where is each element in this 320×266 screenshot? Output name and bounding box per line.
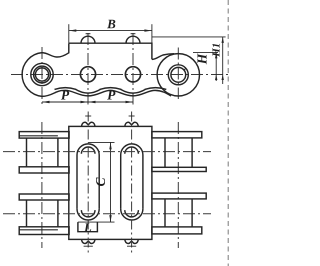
- dimension H1 top extension line: [152, 36, 226, 38]
- bottom inner plate cap arc at pin 2: [75, 89, 100, 93]
- center line tick above pin 3 arc: [131, 33, 136, 35]
- plan view: center line tick top left: [85, 115, 91, 117]
- plan view: right bushing inner end arc bottom: [125, 210, 139, 217]
- clip mark on right pin rings: [184, 68, 186, 70]
- dimension C top extension line: [88, 141, 114, 143]
- plan view: upper-right roller edges: [165, 138, 192, 167]
- node: pin axis 2 center line: [87, 33, 89, 105]
- plan view: right bushing bottom arc: [121, 209, 143, 220]
- bottom inner plate waist arc span 3: [145, 88, 167, 90]
- bushing arc on plate top at pin 3: [126, 36, 140, 43]
- plan view: lower-right outer plate bar: [152, 227, 202, 234]
- plan view: upper-left roller edges: [27, 138, 58, 167]
- plan view: lower-right inner plate pair: [152, 193, 206, 199]
- svg-text:C: C: [93, 177, 108, 187]
- plan view: upper-right outer plate bar: [152, 132, 202, 138]
- plan view: right bushing outer stadium: [121, 144, 143, 209]
- plan view: upper row center line: [3, 151, 211, 153]
- plan view: right pin axis center line: [177, 122, 179, 248]
- dimension B line: [69, 30, 152, 32]
- plan view: pin end ears top right: [125, 122, 139, 126]
- left roller circle: [31, 63, 53, 85]
- svg-text:H: H: [194, 53, 209, 65]
- dimension C bottom extension line: [78, 221, 115, 223]
- bushing arc on plate top at pin 2: [81, 36, 95, 43]
- wire: chain horizontal center line (side view): [11, 74, 229, 76]
- svg-text:L: L: [83, 220, 92, 234]
- dimension B right extension line: [151, 24, 153, 43]
- top contour left span: [42, 43, 69, 57]
- border: dashed page edge right: [227, 0, 229, 266]
- plan view: upper-right inner plate pair: [152, 167, 206, 171]
- center line tick above pin 2 arc: [86, 33, 91, 35]
- plan view: lower row center line: [3, 213, 211, 215]
- plan view: center line tick bottom left: [84, 245, 93, 247]
- plan view: left bushing inner end arc bottom: [81, 210, 95, 217]
- plan view: pin end ears bottom right: [125, 239, 139, 243]
- bottom outer plate wavy contour: [42, 90, 171, 96]
- dimension C line: [110, 142, 112, 222]
- dimension H line: [215, 52, 217, 81]
- dimension H top extension line: [193, 51, 218, 53]
- node: pin axis 1 center line: [41, 47, 43, 105]
- plan view: pin column center line right: [131, 112, 133, 256]
- plan view: pin end ears top left: [82, 122, 96, 126]
- attachment plate top edge: [69, 43, 152, 59]
- plan view: left pin axis center line: [41, 122, 43, 248]
- dimension P line: [42, 101, 133, 103]
- dimension B left extension line: [68, 24, 70, 43]
- node: pin axis 4 center line: [177, 48, 179, 100]
- plan view: upper-left outer plate bar: [19, 132, 69, 139]
- pin 3 circle: [125, 67, 140, 82]
- plan view: right bushing inner end arc top: [125, 147, 139, 154]
- plan view: left bushing top arc: [77, 209, 99, 220]
- bottom inner plate waist arc span 2: [100, 88, 122, 90]
- plan view: lower-left roller edges: [27, 200, 58, 227]
- plan view: left bushing outer stadium: [77, 144, 99, 209]
- bottom inner plate cap arc at pin 3: [120, 89, 145, 93]
- plan view: lower-right roller edges: [165, 199, 192, 227]
- right pin bushing circles: [168, 65, 188, 85]
- plan view: lower-left outer plate bar: [19, 227, 69, 235]
- plan view: center line tick top right: [129, 115, 135, 117]
- right roller circle: [157, 54, 199, 96]
- plan view: center line tick bottom right: [127, 245, 136, 247]
- pin 2 circle: [80, 67, 95, 82]
- plan view: upper-left inner plate pair: [19, 167, 69, 173]
- plan view: left bushing inner end arc top: [81, 147, 95, 154]
- svg-text:H1: H1: [211, 43, 223, 58]
- dimension H1 line: [222, 37, 224, 84]
- left pin bushing circles: [34, 66, 51, 83]
- svg-text:P: P: [61, 87, 70, 102]
- plan view: lower-left inner plate pair: [19, 194, 69, 200]
- plan view: attachment plate outline: [69, 126, 152, 239]
- svg-text:P: P: [107, 87, 116, 102]
- node: pin axis 3 center line: [132, 33, 134, 105]
- plan view: left pin lower box: [78, 222, 98, 232]
- bottom inner plate waist arc span 1: [55, 88, 77, 90]
- plan view: pin column center line left: [87, 112, 89, 256]
- svg-text:B: B: [106, 16, 116, 31]
- top contour right span: [152, 54, 174, 60]
- left link plate rounded end cap: [22, 53, 42, 97]
- plan view: pin end ears bottom left: [82, 239, 96, 243]
